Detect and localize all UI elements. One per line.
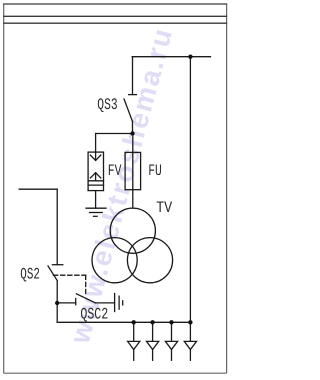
svg-text:TV: TV — [156, 199, 172, 217]
svg-text:FU: FU — [148, 162, 162, 180]
svg-text:FV: FV — [108, 162, 122, 180]
svg-text:QS2: QS2 — [20, 265, 40, 283]
svg-text:QS3: QS3 — [97, 96, 117, 114]
svg-text:QSC2: QSC2 — [80, 306, 108, 324]
